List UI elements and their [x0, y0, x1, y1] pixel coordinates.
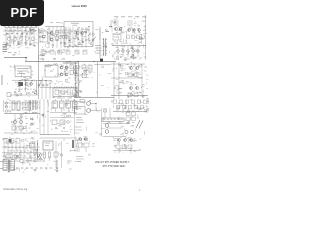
svg-text:2004 FT 9TH POWER SUPPLY: 2004 FT 9TH POWER SUPPLY — [95, 161, 130, 164]
svg-text:STK PTP-9090 SER: STK PTP-9090 SER — [103, 165, 125, 168]
